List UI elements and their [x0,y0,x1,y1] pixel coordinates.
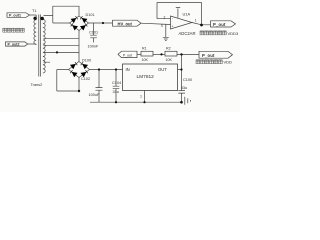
svg-text:VDD: VDD [224,60,233,65]
svg-text:+: + [172,24,174,28]
svg-text:D100: D100 [82,59,91,63]
svg-text:U1A: U1A [183,12,191,17]
svg-text:100nF: 100nF [88,44,99,48]
svg-text:C104: C104 [112,81,121,85]
svg-text:IN: IN [126,67,130,72]
svg-text:LM7812: LM7812 [137,74,155,80]
svg-text:P_out: P_out [123,54,132,58]
svg-text:33u: 33u [113,90,119,94]
svg-text:P_out1: P_out1 [9,14,21,18]
svg-text:3: 3 [161,24,163,28]
svg-text:33u: 33u [181,86,187,90]
svg-text:Trans2: Trans2 [31,83,43,87]
svg-text:1: 1 [140,95,142,99]
svg-text:2: 2 [164,15,166,19]
svg-text:D101: D101 [86,13,95,17]
svg-text:P_out: P_out [202,53,215,58]
svg-text:10K: 10K [142,58,149,62]
svg-text:C102: C102 [81,77,90,81]
svg-text:C100: C100 [183,78,192,82]
svg-text:VDD3: VDD3 [228,31,239,36]
svg-text:10K: 10K [166,58,173,62]
svg-text:T1: T1 [32,9,36,13]
svg-text:100uF: 100uF [89,93,100,97]
svg-text:R2: R2 [166,46,171,50]
svg-text:1: 1 [195,19,197,23]
svg-text:R1: R1 [142,46,147,50]
svg-text:P_out: P_out [213,22,226,27]
svg-text:P_out2: P_out2 [8,42,20,46]
svg-text:C101: C101 [89,31,98,35]
svg-text:HV_out: HV_out [118,22,133,27]
svg-text:ADC2AR: ADC2AR [179,31,196,36]
svg-text:OUT: OUT [158,67,167,72]
